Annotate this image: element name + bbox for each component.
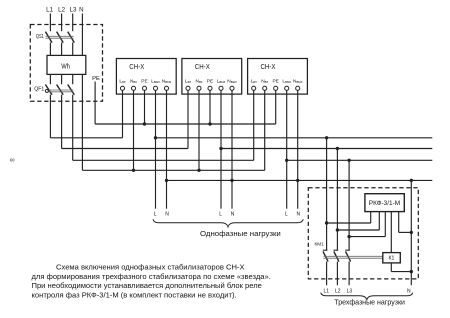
svg-text:Трехфазные нагрузки: Трехфазные нагрузки	[334, 298, 405, 307]
svg-text:Lвых: Lвых	[282, 78, 291, 84]
svg-text:N: N	[165, 211, 169, 217]
svg-text:Nвх: Nвх	[130, 78, 137, 84]
svg-text:СН-Х: СН-Х	[195, 64, 210, 71]
svg-text:N: N	[79, 6, 83, 13]
svg-text:N: N	[407, 288, 411, 294]
svg-text:L2: L2	[58, 6, 65, 13]
svg-text:L3: L3	[70, 6, 77, 13]
svg-text:Lвых: Lвых	[217, 78, 226, 84]
svg-text:PE: PE	[92, 76, 100, 82]
svg-text:L: L	[285, 211, 288, 217]
svg-text:Nвых: Nвых	[227, 78, 237, 84]
svg-text:Lвх: Lвх	[251, 78, 257, 84]
svg-text:РКФ-3/1-М: РКФ-3/1-М	[369, 200, 401, 207]
svg-text:КМ1: КМ1	[315, 242, 325, 248]
svg-text:для формирования трехфазного с: для формирования трехфазного стабилизато…	[32, 272, 271, 281]
svg-text:Lвх: Lвх	[119, 78, 125, 84]
svg-text:N: N	[296, 211, 300, 217]
svg-text:Nвых: Nвых	[162, 78, 172, 84]
svg-text:Nвх: Nвх	[196, 78, 203, 84]
svg-text:PE: PE	[272, 78, 278, 84]
svg-text:PE: PE	[207, 78, 213, 84]
svg-text:СН-Х: СН-Х	[261, 64, 276, 71]
svg-text:∞: ∞	[9, 155, 14, 164]
svg-text:QS1: QS1	[36, 34, 44, 40]
svg-text:L3: L3	[347, 288, 353, 294]
svg-text:QF1: QF1	[34, 87, 44, 93]
svg-text:Lвых: Lвых	[151, 78, 160, 84]
svg-text:N: N	[231, 211, 235, 217]
svg-text:L1: L1	[324, 288, 330, 294]
svg-text:Wh: Wh	[61, 61, 70, 70]
svg-text:PE: PE	[141, 78, 147, 84]
svg-text:L2: L2	[335, 288, 341, 294]
svg-text:контроля фаз РКФ-3/1-М (в комп: контроля фаз РКФ-3/1-М (в комплект поста…	[32, 290, 237, 299]
svg-text:L: L	[219, 211, 222, 217]
svg-text:Схема включения однофазных ста: Схема включения однофазных стабилизаторо…	[56, 263, 245, 272]
svg-text:Nвх: Nвх	[261, 78, 268, 84]
svg-text:К1: К1	[388, 256, 394, 262]
svg-text:При необходимости устанавливае: При необходимости устанавливается дополн…	[32, 281, 262, 290]
svg-text:L1: L1	[46, 6, 53, 13]
svg-text:Однофазные нагрузки: Однофазные нагрузки	[200, 229, 281, 238]
svg-text:L: L	[154, 211, 157, 217]
svg-text:СН-Х: СН-Х	[129, 64, 144, 71]
svg-text:Lвх: Lвх	[185, 78, 191, 84]
svg-text:Nвых: Nвых	[293, 78, 303, 84]
